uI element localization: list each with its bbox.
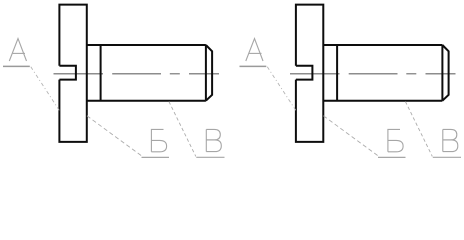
shank top edge	[323, 44, 442, 46]
head-to-shank junction line	[336, 45, 338, 101]
leader line for A (dash-dot)	[31, 67, 60, 111]
centerline dot segment 3	[170, 73, 180, 75]
centerline (dash-dot axis), segment 1	[54, 73, 104, 75]
shank bottom edge	[87, 100, 206, 102]
label letter B1 (Cyrillic Be)	[388, 129, 403, 151]
slot notch profile on head face	[296, 66, 313, 80]
leader line for V (dashed)	[405, 102, 432, 157]
label letter V (Cyrillic Ve)	[443, 129, 458, 151]
label letter B1 (Cyrillic Be)	[151, 129, 166, 151]
label letter A (Cyrillic)	[246, 39, 263, 62]
screw drawing 2 (right view)	[240, 5, 462, 158]
chamfered end cap	[206, 45, 212, 101]
leader line for A (dash-dot)	[267, 67, 296, 111]
label V underline	[433, 156, 461, 158]
shank top edge	[87, 44, 206, 46]
leader line for V (dashed)	[169, 102, 196, 157]
screw head outline (tall flat disc, side view)	[296, 5, 323, 142]
leader line for B1 (dashed)	[87, 116, 142, 156]
label A underline	[3, 65, 30, 67]
chamfered end cap	[442, 45, 448, 101]
centerline segment 2	[349, 73, 398, 75]
centerline segment 4	[189, 73, 219, 75]
shank bottom edge	[323, 100, 442, 102]
slot notch profile on head face	[59, 66, 76, 80]
label B1 underline	[378, 156, 406, 158]
chamfer start line	[205, 45, 207, 101]
leader line for B1 (dashed)	[323, 116, 378, 156]
label letter A (Cyrillic)	[9, 39, 26, 62]
head-to-shank junction line	[100, 45, 102, 101]
screw head outline (tall flat disc, side view)	[59, 5, 86, 142]
centerline dot segment 3	[406, 73, 416, 75]
centerline segment 2	[112, 73, 161, 75]
label letter V (Cyrillic Ve)	[206, 129, 221, 151]
label V underline	[196, 156, 224, 158]
label A underline	[240, 65, 267, 67]
label B1 underline	[142, 156, 170, 158]
screw drawing 1 (left view)	[3, 5, 225, 158]
chamfer start line	[441, 45, 443, 101]
centerline segment 4	[426, 73, 456, 75]
centerline (dash-dot axis), segment 1	[290, 73, 340, 75]
